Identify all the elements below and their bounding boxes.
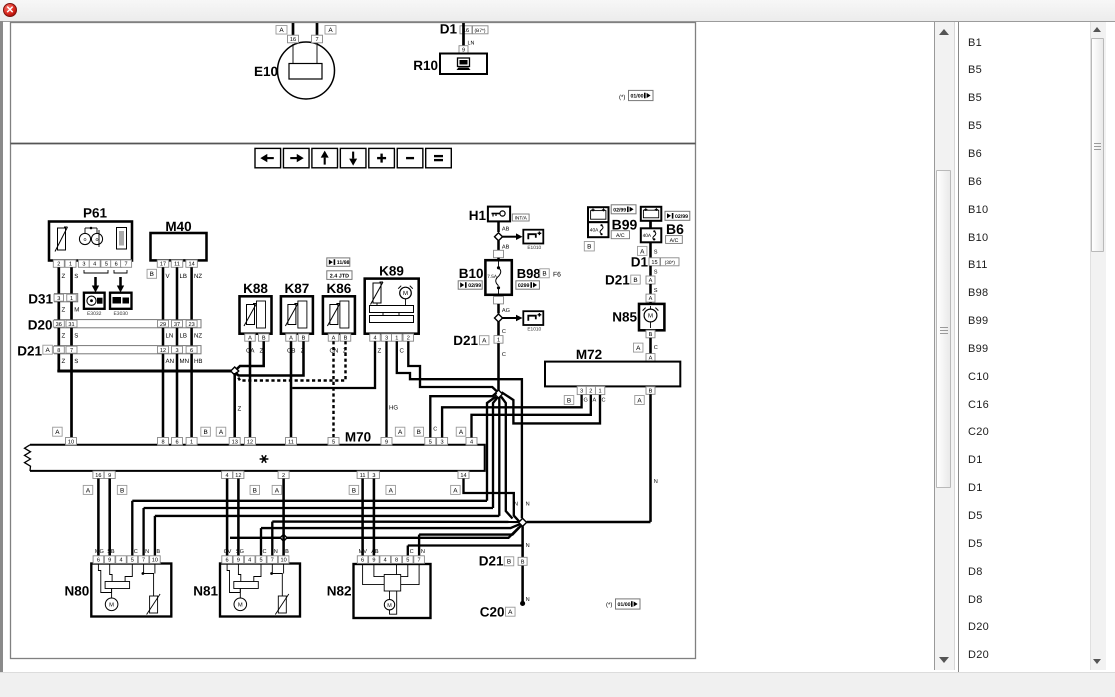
svg-text:9: 9 [108,558,111,564]
svg-text:B: B [567,397,571,404]
svg-text:5: 5 [259,558,262,564]
svg-text:C: C [602,398,606,404]
svg-text:M70: M70 [345,430,371,445]
svg-text:D1: D1 [440,22,458,37]
svg-text:N: N [654,479,658,485]
svg-text:LN: LN [166,333,174,340]
svg-text:7: 7 [125,262,128,268]
svg-text:37: 37 [174,322,180,328]
svg-text:3: 3 [441,439,444,445]
svg-text:11: 11 [174,262,180,268]
svg-text:B: B [203,429,207,436]
svg-text:E10: E10 [254,64,278,79]
svg-text:K88: K88 [243,281,268,296]
svg-text:Z: Z [378,348,382,355]
svg-text:02/99: 02/99 [613,207,626,213]
svg-text:11/98: 11/98 [337,260,350,266]
svg-text:N: N [514,502,518,508]
svg-text:C: C [400,348,405,355]
svg-text:6: 6 [190,348,193,354]
svg-text:13: 13 [232,439,238,445]
svg-text:10: 10 [152,558,158,564]
svg-text:B: B [344,336,348,342]
svg-text:4: 4 [226,473,229,479]
svg-text:9: 9 [108,473,111,479]
svg-text:1: 1 [69,262,72,268]
svg-text:M: M [109,603,114,609]
svg-text:B99: B99 [612,217,638,233]
svg-text:3: 3 [580,389,583,395]
svg-text:E1010: E1010 [527,245,541,251]
svg-text:N81: N81 [193,584,218,599]
svg-text:02/99: 02/99 [468,283,481,289]
svg-text:A: A [649,296,653,302]
svg-text:7: 7 [418,558,421,564]
svg-text:AB: AB [502,244,510,250]
svg-text:AN: AN [166,358,174,365]
svg-text:B: B [156,549,160,555]
svg-text:B: B [587,244,591,251]
svg-text:Z: Z [62,358,66,365]
svg-text:1: 1 [395,336,398,342]
svg-text:A: A [332,336,336,342]
svg-text:A: A [637,397,642,404]
svg-text:3: 3 [175,348,178,354]
svg-text:E3030: E3030 [113,311,128,317]
svg-text:K87: K87 [285,281,310,296]
svg-text:4: 4 [470,439,473,445]
svg-text:B: B [542,271,546,278]
svg-text:6: 6 [175,439,178,445]
svg-text:o: o [84,237,87,243]
svg-text:10: 10 [280,558,286,564]
svg-text:A: A [636,345,641,352]
svg-text:A: A [219,429,224,436]
svg-text:31: 31 [68,322,74,328]
svg-text:P61: P61 [83,206,108,221]
svg-text:14: 14 [460,473,466,479]
svg-text:A: A [459,429,464,436]
svg-text:D21: D21 [453,333,478,348]
svg-text:C: C [502,329,506,335]
svg-text:2: 2 [407,336,410,342]
svg-text:Z: Z [238,406,242,413]
svg-text:7: 7 [315,37,318,43]
svg-text:E1010: E1010 [527,326,541,332]
svg-text:MV: MV [359,549,368,555]
svg-text:S: S [654,250,658,256]
svg-text:B: B [521,559,525,565]
svg-text:29: 29 [160,322,166,328]
svg-text:11: 11 [360,473,366,479]
svg-text:8: 8 [161,439,164,445]
svg-text:2: 2 [57,262,60,268]
svg-text:12: 12 [235,473,241,479]
svg-text:1: 1 [70,296,73,302]
svg-text:N: N [421,549,425,555]
svg-text:D21: D21 [605,273,630,288]
svg-text:1: 1 [497,338,500,344]
svg-text:SB: SB [107,549,115,555]
svg-text:4: 4 [119,558,122,564]
svg-text:36: 36 [56,322,62,328]
svg-text:5: 5 [406,558,409,564]
svg-text:S: S [654,270,658,276]
svg-text:4: 4 [248,558,251,564]
svg-text:2.4 JTD: 2.4 JTD [330,273,349,279]
svg-text:B: B [633,277,637,284]
svg-text:AB: AB [371,549,379,555]
svg-text:H1: H1 [469,208,487,223]
svg-text:A/C: A/C [616,233,625,239]
svg-text:N: N [526,597,530,603]
svg-text:M: M [387,603,392,609]
svg-text:01/00: 01/00 [631,94,644,100]
svg-text:E3032: E3032 [87,311,102,317]
svg-text:N80: N80 [65,584,90,599]
svg-text:MN: MN [180,358,189,365]
svg-text:o: o [96,237,99,243]
svg-text:D31: D31 [28,292,53,307]
svg-text:B: B [302,336,306,342]
svg-text:A: A [248,336,252,342]
svg-text:(B7*): (B7*) [475,28,486,34]
svg-text:A: A [398,429,403,436]
svg-text:S: S [74,358,78,365]
svg-text:B: B [285,549,289,555]
svg-text:C20: C20 [480,605,505,620]
svg-text:(*): (*) [606,602,612,609]
svg-text:4: 4 [384,558,387,564]
svg-text:Z: Z [62,307,66,314]
svg-text:3: 3 [82,262,85,268]
svg-text:01/00: 01/00 [618,602,631,608]
svg-text:N: N [526,502,530,508]
svg-text:B: B [120,487,124,494]
svg-text:S: S [74,273,78,280]
svg-text:AG: AG [502,308,510,314]
svg-text:LB: LB [180,333,187,340]
svg-text:15: 15 [651,260,657,266]
svg-text:A: A [279,27,284,34]
svg-text:D1: D1 [631,254,649,269]
svg-text:7: 7 [70,348,73,354]
svg-text:3: 3 [372,473,375,479]
svg-text:B: B [507,559,511,566]
svg-text:7: 7 [142,558,145,564]
svg-text:A: A [649,278,653,284]
svg-text:S: S [654,288,658,294]
svg-text:3: 3 [57,296,60,302]
svg-text:A: A [508,609,513,616]
svg-text:M: M [648,313,653,320]
svg-text:A: A [45,347,50,354]
svg-text:A: A [482,338,487,345]
svg-text:B: B [649,332,653,338]
svg-text:A/C: A/C [670,238,679,244]
svg-text:Z: Z [62,273,66,280]
svg-text:Z: Z [62,333,66,340]
svg-text:INT/A: INT/A [515,215,528,221]
svg-text:(30*): (30*) [665,260,676,266]
svg-text:M: M [238,603,243,609]
svg-text:1: 1 [598,389,601,395]
svg-text:N: N [526,543,530,549]
svg-text:B: B [262,336,266,342]
svg-text:3: 3 [385,336,388,342]
svg-text:C: C [263,549,267,555]
svg-text:A: A [55,429,60,436]
svg-text:D21: D21 [17,344,42,359]
svg-text:C: C [134,549,138,555]
svg-text:9: 9 [237,558,240,564]
svg-text:B10: B10 [459,266,484,281]
svg-text:A: A [389,487,394,494]
svg-text:D20: D20 [28,318,53,333]
svg-text:C: C [502,352,506,358]
svg-text:2: 2 [589,389,592,395]
svg-text:LB: LB [180,273,187,280]
svg-text:HB: HB [194,358,202,365]
svg-text:B6: B6 [666,221,684,237]
svg-text:N82: N82 [327,584,352,599]
svg-text:B: B [150,271,154,278]
svg-text:AB: AB [502,227,510,233]
svg-text:C: C [410,549,414,555]
svg-text:B: B [253,487,257,494]
svg-text:2: 2 [282,473,285,479]
svg-text:M: M [74,307,79,314]
svg-text:C: C [433,427,437,433]
svg-text:9: 9 [385,439,388,445]
svg-text:G: G [584,398,588,404]
svg-text:A: A [289,336,293,342]
svg-text:7: 7 [271,558,274,564]
svg-text:CV: CV [224,549,232,555]
svg-text:11: 11 [288,439,294,445]
svg-text:A: A [593,398,597,404]
svg-text:A: A [86,487,91,494]
svg-text:7.5A: 7.5A [487,274,498,279]
svg-text:SG: SG [236,549,244,555]
svg-text:A: A [328,27,333,34]
svg-text:5: 5 [429,439,432,445]
svg-text:NZ: NZ [194,333,202,340]
svg-text:17: 17 [160,262,166,268]
svg-text:B: B [352,487,356,494]
svg-text:16: 16 [290,37,296,43]
svg-text:B: B [649,389,653,395]
svg-text:0299: 0299 [518,283,530,289]
svg-text:LN: LN [468,41,475,47]
svg-text:4: 4 [373,336,376,342]
svg-text:NZ: NZ [194,273,202,280]
svg-text:40A: 40A [643,233,652,239]
svg-text:9: 9 [372,558,375,564]
svg-text:5: 5 [332,439,335,445]
svg-text:14: 14 [188,262,194,268]
svg-text:HG: HG [389,405,398,412]
svg-text:N: N [145,549,149,555]
svg-text:B: B [417,429,421,436]
svg-text:8: 8 [395,558,398,564]
svg-text:A: A [453,487,458,494]
svg-text:F6: F6 [553,272,561,279]
svg-text:A: A [275,487,280,494]
svg-text:B98: B98 [517,266,541,281]
svg-text:N85: N85 [612,310,637,325]
svg-text:16: 16 [95,473,101,479]
svg-text:6: 6 [361,558,364,564]
svg-text:1: 1 [190,439,193,445]
svg-text:S: S [74,333,78,340]
svg-text:K86: K86 [327,281,352,296]
svg-text:C: C [654,345,658,351]
svg-text:40A: 40A [590,228,599,234]
svg-text:R10: R10 [413,58,438,73]
svg-text:4: 4 [93,262,96,268]
svg-text:23: 23 [188,322,194,328]
svg-text:(*): (*) [619,94,625,101]
svg-text:10: 10 [68,439,74,445]
svg-text:6: 6 [115,262,118,268]
svg-text:02/99: 02/99 [675,214,688,220]
svg-text:12: 12 [160,348,166,354]
svg-text:M: M [403,290,408,297]
svg-text:M40: M40 [165,219,191,234]
svg-text:6: 6 [97,558,100,564]
svg-text:M72: M72 [576,347,602,362]
svg-text:12: 12 [247,439,253,445]
svg-text:N: N [274,549,278,555]
svg-text:K89: K89 [379,264,404,279]
svg-text:D21: D21 [479,554,504,569]
svg-text:MG: MG [95,549,104,555]
svg-text:5: 5 [131,558,134,564]
svg-text:8: 8 [57,348,60,354]
svg-text:5: 5 [105,262,108,268]
svg-text:6: 6 [226,558,229,564]
